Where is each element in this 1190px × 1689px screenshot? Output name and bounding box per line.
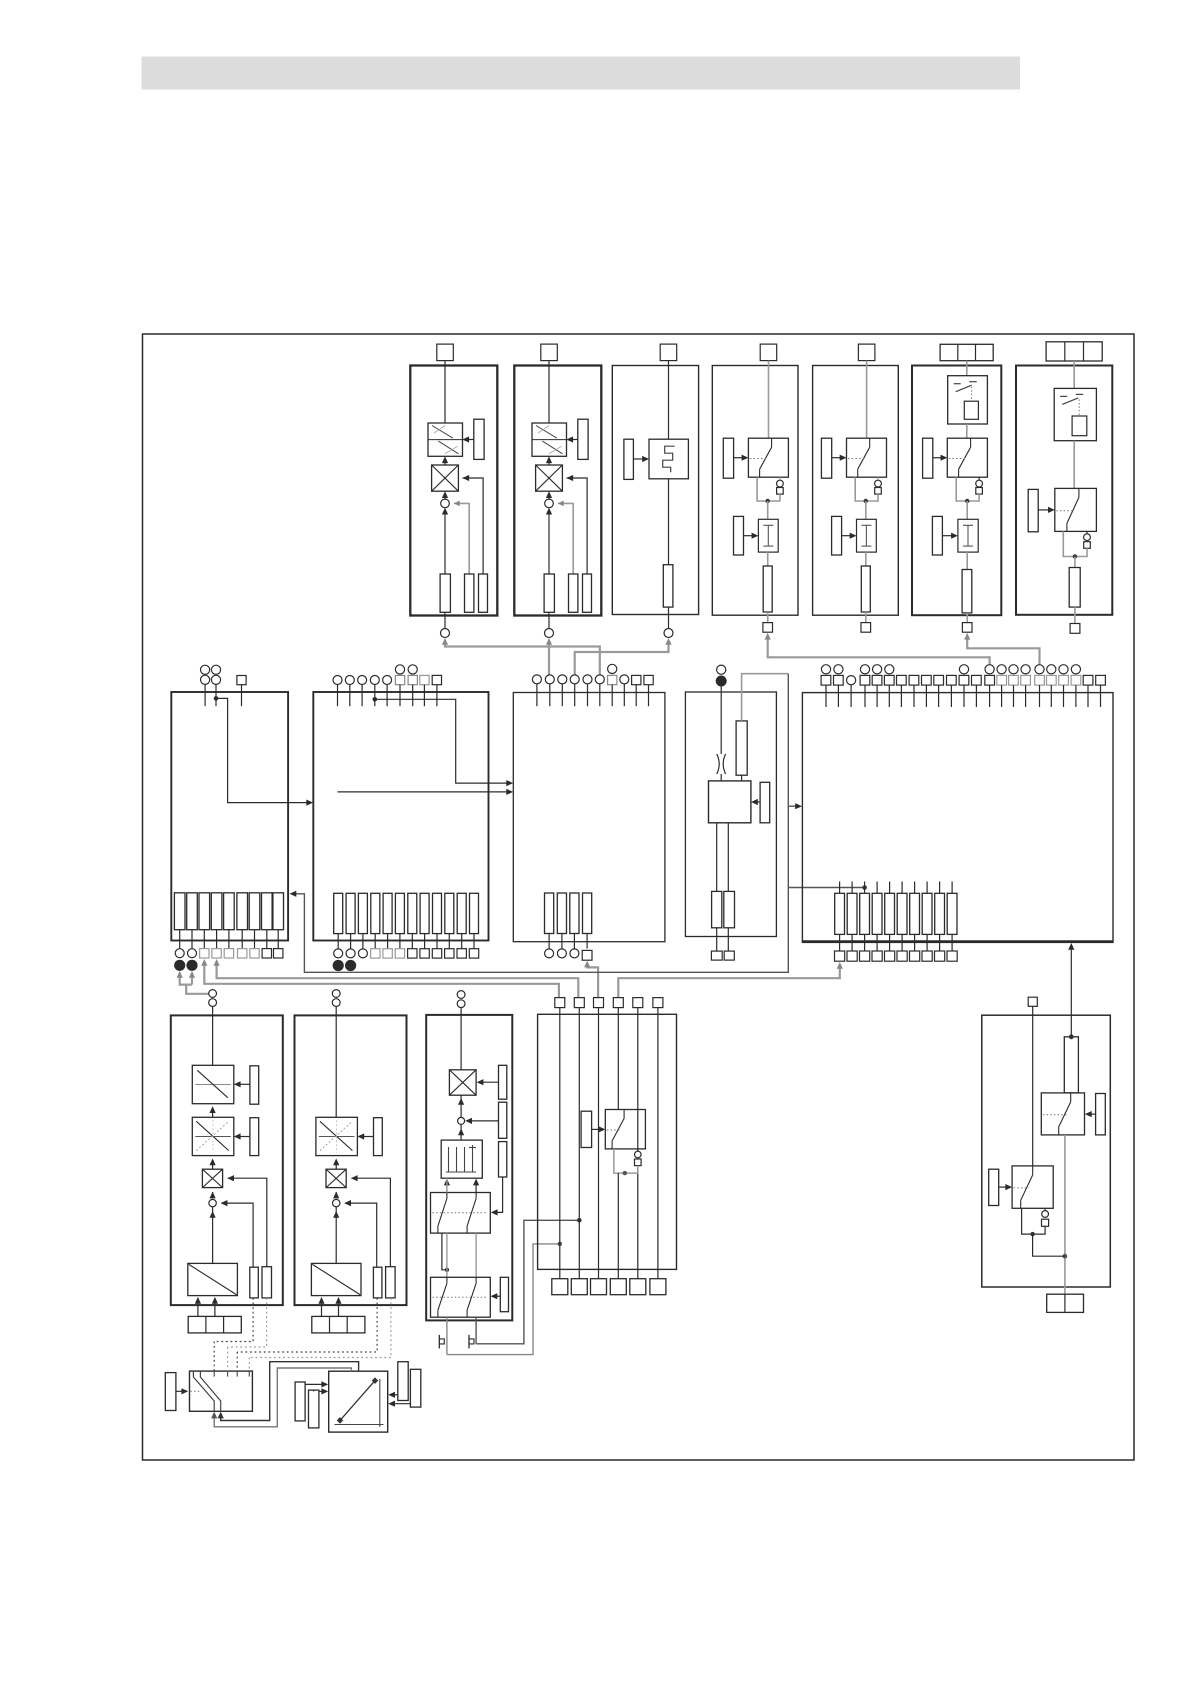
- gray bus: L4 input 2 to M1 connector 4: [214, 959, 579, 998]
- input block 5 (ramp generator 2): [813, 344, 899, 632]
- input block 4 (ramp generator 1): [712, 344, 798, 632]
- input block 3 (fixed setpoints / staircase): [612, 344, 698, 637]
- middle block M1 (analog input processing): [171, 665, 313, 970]
- parameter bar B2-left-2: [309, 1388, 329, 1428]
- input block 6 (motor potentiometer): [912, 344, 1001, 632]
- wire: L3 output to L4 line 2 (black): [476, 1218, 581, 1344]
- dotted wire d3: L2 bar1 to B1: [237, 1298, 377, 1371]
- dotted wire d4: L2 bar2 to B1: [249, 1298, 391, 1371]
- gray wire: M1 output circles to L1 input: [177, 971, 209, 994]
- wire: M3 output to block2 input circle: [546, 638, 552, 675]
- pulse symbol 2 below L3: [469, 1335, 474, 1349]
- wire net: M4 parameter / M5 input / M1 feedback: [290, 674, 867, 973]
- parameter bar B2-right-1: [388, 1362, 408, 1401]
- input block 2 (setpoint scaling): [514, 344, 601, 637]
- gray bus: L4 input 1 to M1 connector 3: [201, 959, 559, 998]
- lower-right block R (output stage enable): [982, 997, 1111, 1312]
- outer diagram frame: [143, 334, 1135, 1460]
- bottom block B1 (actual value selector): [165, 1371, 252, 1411]
- middle block M4 (motor model): [685, 665, 776, 960]
- gray bus: L4 input 4 to M5 bottom connector 1: [618, 962, 843, 998]
- middle block M3 (setpoint processing): [513, 664, 665, 960]
- lower block L3 (speed controller): [426, 991, 512, 1355]
- dotted wire d2: L1 bar2 to B1: [228, 1298, 267, 1371]
- lower block L2 (torque controller): [295, 990, 407, 1333]
- wire: L4 connector up to M3 connector square: [584, 961, 598, 998]
- wire: M5 connector to block4 output square: [765, 633, 990, 665]
- wire: B2 top to B1 bottom (gray): [211, 1368, 351, 1427]
- bottom block B2 (scaling characteristic): [329, 1371, 388, 1432]
- wire bus: M3 output to block1 input circle: [442, 638, 600, 675]
- page header bar: [142, 57, 1021, 90]
- parameter bar B2-right-2: [388, 1369, 421, 1407]
- wire: R-block up to M5 bottom edge: [1068, 943, 1074, 1037]
- wire: B2 top to B1 bottom (black): [218, 1362, 359, 1421]
- middle block M2 (setpoint selection): [313, 665, 513, 971]
- wire: L3 output to L4 line 1 (gray): [447, 1242, 562, 1355]
- lower block L1 (current controller): [171, 990, 283, 1333]
- wire: M5 connector to block6 output square: [964, 633, 1039, 665]
- wire: M3 output to block3 input circle: [575, 638, 672, 675]
- dotted wire d1: L1 bar1 to B1: [214, 1298, 253, 1371]
- input block 7 (fixed setpoint switching): [1016, 342, 1112, 634]
- middle block M5 (control word / terminal assignment): [802, 665, 1113, 962]
- input block 1 (setpoint scaling): [410, 344, 497, 637]
- lower block L4 (binary output assignment): [538, 998, 677, 1295]
- parameter bar B2-left-1: [295, 1381, 328, 1421]
- pulse symbol 1 below L3: [439, 1335, 444, 1349]
